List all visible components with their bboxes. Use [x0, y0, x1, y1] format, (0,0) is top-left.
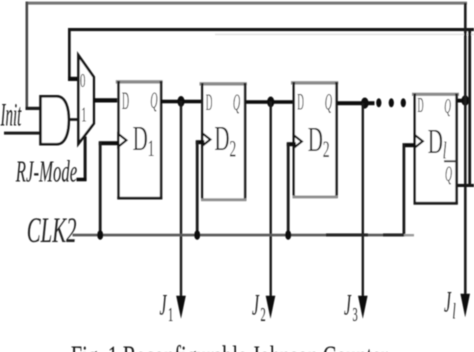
svg-text:D: D	[297, 88, 304, 114]
wire feedback right vertical V2	[468, 29, 471, 187]
svg-text:Q: Q	[325, 89, 332, 115]
svg-text:J: J	[444, 286, 452, 319]
svg-text:2: 2	[323, 138, 330, 163]
svg-text:J: J	[344, 289, 352, 322]
svg-text:2: 2	[261, 305, 266, 326]
svg-text:1: 1	[148, 137, 155, 162]
wire mux output to FF1 D	[93, 98, 119, 102]
svg-text:0: 0	[80, 71, 85, 92]
wire CLK2 line	[73, 234, 405, 237]
svg-text:D: D	[428, 122, 443, 161]
wire AND output	[69, 118, 80, 121]
ellipsis dots	[376, 98, 406, 107]
svg-text:Q: Q	[445, 162, 452, 187]
svg-text:Q: Q	[444, 95, 451, 118]
wire FF1 Q to FF2 D	[161, 100, 203, 104]
svg-text:D: D	[206, 89, 213, 115]
wire FF4 Qbar output	[457, 184, 474, 187]
flip-flop FF1 box	[116, 80, 163, 199]
svg-text:Q: Q	[150, 87, 157, 113]
FF1 clock pin triangle	[118, 134, 126, 147]
wire J3 vertical	[362, 103, 364, 297]
and-gate U1	[41, 96, 69, 144]
arrow J1	[176, 296, 186, 319]
wire FF1 clock vertical	[99, 142, 102, 236]
wire FF2 clock vertical	[196, 141, 199, 236]
node CLK2 junction FF3	[285, 230, 291, 240]
node CLK2 junction FF1	[97, 230, 103, 240]
svg-text:D: D	[308, 120, 323, 159]
wire FF4 clock vertical	[403, 144, 406, 236]
svg-text:D: D	[122, 88, 129, 116]
arrow J3	[358, 296, 368, 319]
wire left vertical from W1 to AND gate	[26, 2, 29, 109]
mux U2	[78, 55, 93, 144]
flip-flop FF4 box	[412, 93, 459, 205]
node J3 tap	[361, 98, 369, 109]
wire mux select vertical	[84, 137, 87, 182]
wire W2 feedback (Qbar net)	[68, 28, 474, 31]
wire CLK2 gray tail	[404, 234, 414, 236]
FF4 clock pin triangle	[415, 135, 423, 148]
svg-text:Q: Q	[233, 89, 240, 115]
wire J1 vertical	[180, 101, 182, 297]
wire feedback right vertical V1	[464, 3, 467, 297]
wire CLK2 dark segment a	[326, 233, 368, 236]
svg-text:D: D	[133, 119, 148, 158]
wire FF4 clock stub	[403, 143, 416, 147]
wire FF3 clock vertical	[287, 143, 290, 236]
FF2 clock pin triangle	[202, 133, 210, 146]
node J2 tap	[267, 97, 274, 108]
arrow J2	[266, 296, 276, 319]
wire AND top input stub	[26, 107, 41, 110]
FF3 clock pin triangle	[294, 135, 302, 148]
svg-text:1: 1	[168, 305, 173, 326]
wire RJ-Mode stub	[77, 178, 87, 182]
wire top feedback W1	[26, 2, 468, 5]
wire FF3 clock stub	[287, 142, 296, 146]
arrow Jl	[460, 294, 470, 318]
svg-text:2: 2	[229, 137, 236, 162]
label FF4 pin Qbar overbar	[444, 160, 457, 162]
svg-text:Fig. 1 Reconfigurable Johnson: Fig. 1 Reconfigurable Johnson Counter	[71, 339, 388, 352]
svg-text:3: 3	[353, 305, 358, 326]
wire FF2 clock stub	[196, 140, 205, 144]
wire W2 left vertical to mux input 0	[68, 28, 71, 78]
wire FF2 Q to FF3 D	[246, 100, 293, 104]
svg-text:D: D	[214, 120, 229, 159]
svg-text:CLK2: CLK2	[27, 212, 77, 251]
wire FF1 clock stub	[99, 141, 119, 145]
wire mux input 0 stub	[68, 77, 79, 81]
wire CLK2 dark segment b	[383, 233, 405, 236]
wire FF4 Q output	[457, 99, 468, 103]
svg-text:D: D	[418, 95, 424, 117]
node CLK2 junction FF2	[194, 230, 200, 240]
svg-text:J: J	[160, 289, 168, 322]
flip-flop FF2 box	[200, 82, 247, 201]
node FF4 Q junction	[461, 95, 469, 105]
wire W2 echo artifact	[215, 34, 474, 35]
svg-text:1: 1	[81, 103, 87, 127]
wire J2 vertical	[270, 102, 272, 298]
svg-text:l: l	[453, 298, 456, 323]
node J1 tap	[177, 96, 184, 107]
svg-text:Init: Init	[0, 96, 22, 133]
svg-text:RJ-Mode: RJ-Mode	[15, 155, 77, 189]
svg-text:J: J	[252, 289, 260, 322]
flip-flop FF3 box	[291, 81, 338, 198]
wire FF3 Q out	[337, 101, 375, 105]
wire Init input	[4, 132, 40, 135]
